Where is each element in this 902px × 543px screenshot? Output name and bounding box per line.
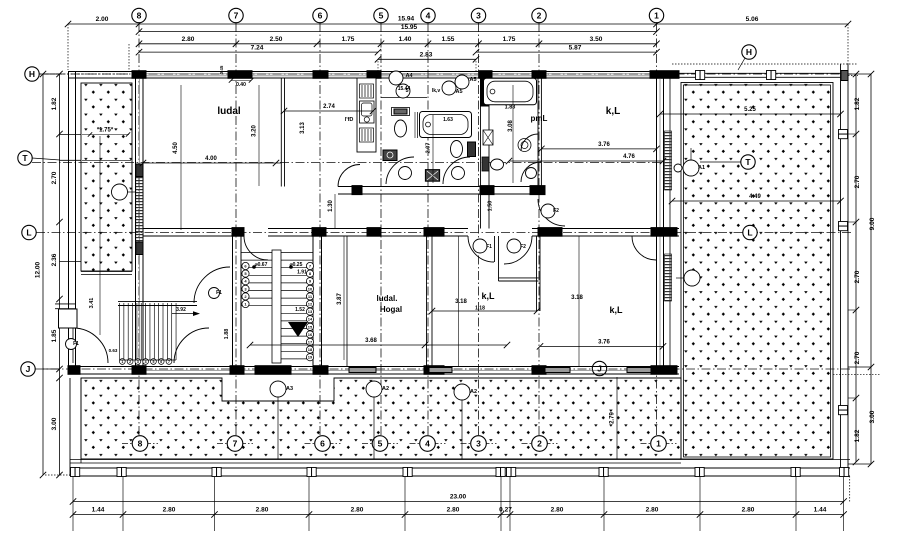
svg-text:1.91: 1.91 [297,270,307,276]
svg-text:15: 15 [308,324,313,329]
svg-text:2.80: 2.80 [742,507,755,514]
svg-text:⌀0.67: ⌀0.67 [255,262,268,268]
svg-text:3: 3 [476,11,481,21]
svg-text:8: 8 [137,11,142,21]
svg-text:10: 10 [308,286,313,291]
svg-text:A3: A3 [286,386,293,392]
svg-text:2.70: 2.70 [854,351,861,364]
svg-text:0.27: 0.27 [499,507,512,514]
svg-text:T: T [22,153,28,163]
svg-text:⌀0.25: ⌀0.25 [290,262,303,268]
svg-text:0.40: 0.40 [236,82,246,88]
svg-text:pmL: pmL [531,114,548,123]
svg-text:F2: F2 [520,244,526,250]
svg-text:4: 4 [425,439,430,449]
svg-text:ludal: ludal [217,106,241,117]
svg-text:1.52: 1.52 [295,307,305,313]
svg-text:k,L: k,L [609,305,623,315]
svg-text:1.82: 1.82 [51,97,58,110]
svg-text:1: 1 [656,439,661,449]
svg-text:1.82: 1.82 [854,429,861,442]
svg-text:23.00: 23.00 [450,494,467,501]
svg-text:3.41: 3.41 [89,298,95,309]
svg-text:2.79: 2.79 [610,412,616,424]
svg-text:6: 6 [160,360,162,364]
svg-text:2.50: 2.50 [270,36,283,43]
svg-text:2.83: 2.83 [420,52,433,59]
svg-text:1.50: 1.50 [488,201,494,212]
svg-text:3.68: 3.68 [365,338,377,344]
svg-text:2: 2 [129,360,131,364]
svg-text:A2: A2 [470,389,477,395]
svg-text:3.00: 3.00 [51,417,58,430]
svg-text:13: 13 [308,309,313,314]
svg-text:3.92: 3.92 [176,307,186,313]
svg-text:3.50: 3.50 [590,36,603,43]
svg-text:18: 18 [308,347,313,352]
svg-text:15.44: 15.44 [398,86,411,92]
svg-text:2.80: 2.80 [163,507,176,514]
svg-text:2.07: 2.07 [426,143,432,154]
svg-text:3.18: 3.18 [571,295,583,301]
svg-text:2.80: 2.80 [182,36,195,43]
svg-text:A4: A4 [405,73,413,79]
svg-text:1.88: 1.88 [224,329,230,340]
svg-text:*1.75*: *1.75* [97,128,114,134]
svg-text:1.55: 1.55 [442,36,455,43]
svg-text:1.44: 1.44 [814,507,827,514]
svg-text:3.20: 3.20 [252,125,258,137]
svg-text:2.80: 2.80 [447,507,460,514]
svg-text:3.76: 3.76 [598,142,610,148]
svg-text:2: 2 [537,439,542,449]
svg-text:F1: F1 [216,290,222,296]
svg-text:9.00: 9.00 [869,217,876,230]
svg-text:7: 7 [168,360,170,364]
svg-text:7.24: 7.24 [251,44,264,51]
svg-text:6: 6 [320,439,325,449]
svg-text:4.00: 4.00 [205,156,217,162]
svg-text:lk,v: lk,v [432,88,441,94]
svg-text:1.44: 1.44 [92,507,105,514]
svg-text:2.70: 2.70 [854,175,861,188]
svg-text:L: L [26,228,31,238]
svg-text:5: 5 [152,360,154,364]
svg-text:15.95: 15.95 [401,24,418,31]
svg-text:2.70: 2.70 [51,171,58,184]
svg-text:5.87: 5.87 [569,44,582,51]
svg-text:2: 2 [537,11,542,21]
svg-text:15.94: 15.94 [398,15,415,22]
svg-text:2.74: 2.74 [323,104,335,110]
svg-text:3: 3 [476,439,481,449]
svg-text:2.80: 2.80 [351,507,364,514]
svg-text:14: 14 [308,317,313,322]
svg-text:2.00: 2.00 [96,16,109,23]
svg-text:1.63: 1.63 [443,117,453,123]
svg-text:3: 3 [137,360,139,364]
svg-text:F2: F2 [553,208,559,214]
svg-text:1.82: 1.82 [854,97,861,110]
svg-text:0.63: 0.63 [109,348,118,353]
svg-text:1.83: 1.83 [505,105,516,111]
svg-text:2.80: 2.80 [256,507,269,514]
svg-text:17: 17 [308,340,313,345]
svg-text:1.40: 1.40 [399,36,412,43]
svg-text:12.00: 12.00 [35,261,42,278]
svg-text:L: L [747,228,752,238]
svg-text:5.25: 5.25 [744,107,756,113]
svg-text:2.70: 2.70 [854,270,861,283]
svg-text:16: 16 [308,332,313,337]
svg-text:5: 5 [378,439,383,449]
svg-text:3.13: 3.13 [300,122,306,134]
svg-text:3.18: 3.18 [455,299,467,305]
svg-text:Hogal: Hogal [380,305,402,314]
svg-text:3.87: 3.87 [337,293,343,305]
svg-text:1.30: 1.30 [328,200,334,212]
svg-text:T: T [745,157,751,167]
svg-text:1.75: 1.75 [342,36,355,43]
svg-text:3.00: 3.00 [869,410,876,423]
svg-text:A1: A1 [698,165,705,171]
svg-text:0.45: 0.45 [219,65,224,74]
svg-text:1: 1 [121,360,123,364]
svg-text:7: 7 [233,439,238,449]
svg-text:4.49: 4.49 [749,194,761,200]
svg-text:4.50: 4.50 [173,142,179,154]
svg-text:ludal.: ludal. [377,294,398,303]
svg-text:1.85: 1.85 [51,329,58,342]
svg-text:1.75: 1.75 [503,36,516,43]
svg-text:J: J [26,364,31,374]
svg-text:4.76: 4.76 [623,154,635,160]
svg-text:H: H [29,69,35,79]
svg-text:1: 1 [654,11,659,21]
svg-text:A5: A5 [469,77,476,83]
svg-text:k,L: k,L [606,106,620,117]
svg-text:5: 5 [379,11,384,21]
svg-text:4: 4 [426,11,431,21]
svg-text:19: 19 [308,355,313,360]
svg-text:2.80: 2.80 [551,507,564,514]
svg-text:8: 8 [138,439,143,449]
svg-text:2.36: 2.36 [51,253,58,266]
svg-text:5.06: 5.06 [746,16,759,23]
svg-text:A5: A5 [455,89,462,95]
svg-text:J: J [597,364,602,374]
svg-text:2.80: 2.80 [646,507,659,514]
svg-text:H: H [746,47,752,57]
svg-text:1.18: 1.18 [475,306,485,312]
svg-text:7: 7 [234,11,239,21]
svg-text:3.76: 3.76 [598,340,610,346]
svg-text:l'fD: l'fD [345,117,354,123]
svg-text:12: 12 [308,302,313,307]
svg-text:6: 6 [318,11,323,21]
svg-text:4: 4 [145,360,147,364]
svg-text:F1: F1 [73,341,79,347]
svg-text:k,L: k,L [481,291,495,301]
svg-text:F1: F1 [486,244,492,250]
svg-text:A2: A2 [382,386,389,392]
